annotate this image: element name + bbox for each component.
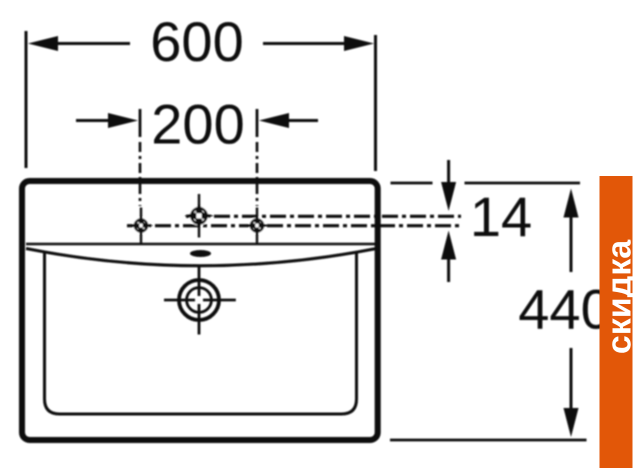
banner скидка	[600, 176, 633, 468]
tap hole center (middle)	[184, 194, 213, 238]
dim 440 bottom reference line	[390, 439, 587, 442]
dim 440 line lower + down arrow	[570, 348, 573, 412]
tap hole right	[245, 208, 269, 244]
svg-text:скидка: скидка	[601, 239, 639, 354]
dim 200 line left + arrow	[76, 119, 112, 122]
drain inner circle	[187, 288, 212, 313]
dim 600 line right segment	[263, 42, 350, 45]
tap hole left	[129, 208, 153, 244]
tap hole axis lower (side holes)	[127, 224, 461, 227]
dim 200 tick right	[256, 109, 259, 137]
dim 600 extension line left	[25, 31, 28, 168]
dim 600 arrow right	[344, 36, 374, 51]
basin	[45, 253, 357, 414]
tap hole axis upper (middle hole)	[186, 215, 461, 218]
dim 600 extension line right	[374, 35, 377, 171]
dim 600 arrow left	[28, 36, 58, 51]
dim 440 line upper + up arrow	[570, 212, 573, 272]
svg-text:440: 440	[518, 278, 611, 341]
dim 200 centre line right (dash-dot down to hole)	[256, 142, 259, 206]
drain cross vertical	[198, 267, 201, 335]
dim 200 line right + arrow	[286, 119, 318, 122]
svg-text:14: 14	[470, 185, 532, 248]
overflow slot	[190, 250, 211, 257]
deck curve	[26, 249, 377, 266]
sink outer rim	[22, 181, 378, 440]
dim 14 down arrow	[447, 160, 450, 186]
drain cross horizontal	[164, 299, 236, 302]
dim 600 line left segment	[52, 42, 130, 45]
dim 14 top reference line	[391, 182, 581, 185]
dim 14 up arrow	[447, 256, 450, 282]
rim inner back line	[26, 243, 376, 245]
drain outer circle	[179, 280, 219, 320]
dim 200 tick left	[139, 109, 142, 137]
svg-text:200: 200	[151, 93, 244, 156]
svg-text:600: 600	[150, 10, 243, 73]
dim 200 centre line left (dash-dot down to hole)	[139, 142, 142, 206]
